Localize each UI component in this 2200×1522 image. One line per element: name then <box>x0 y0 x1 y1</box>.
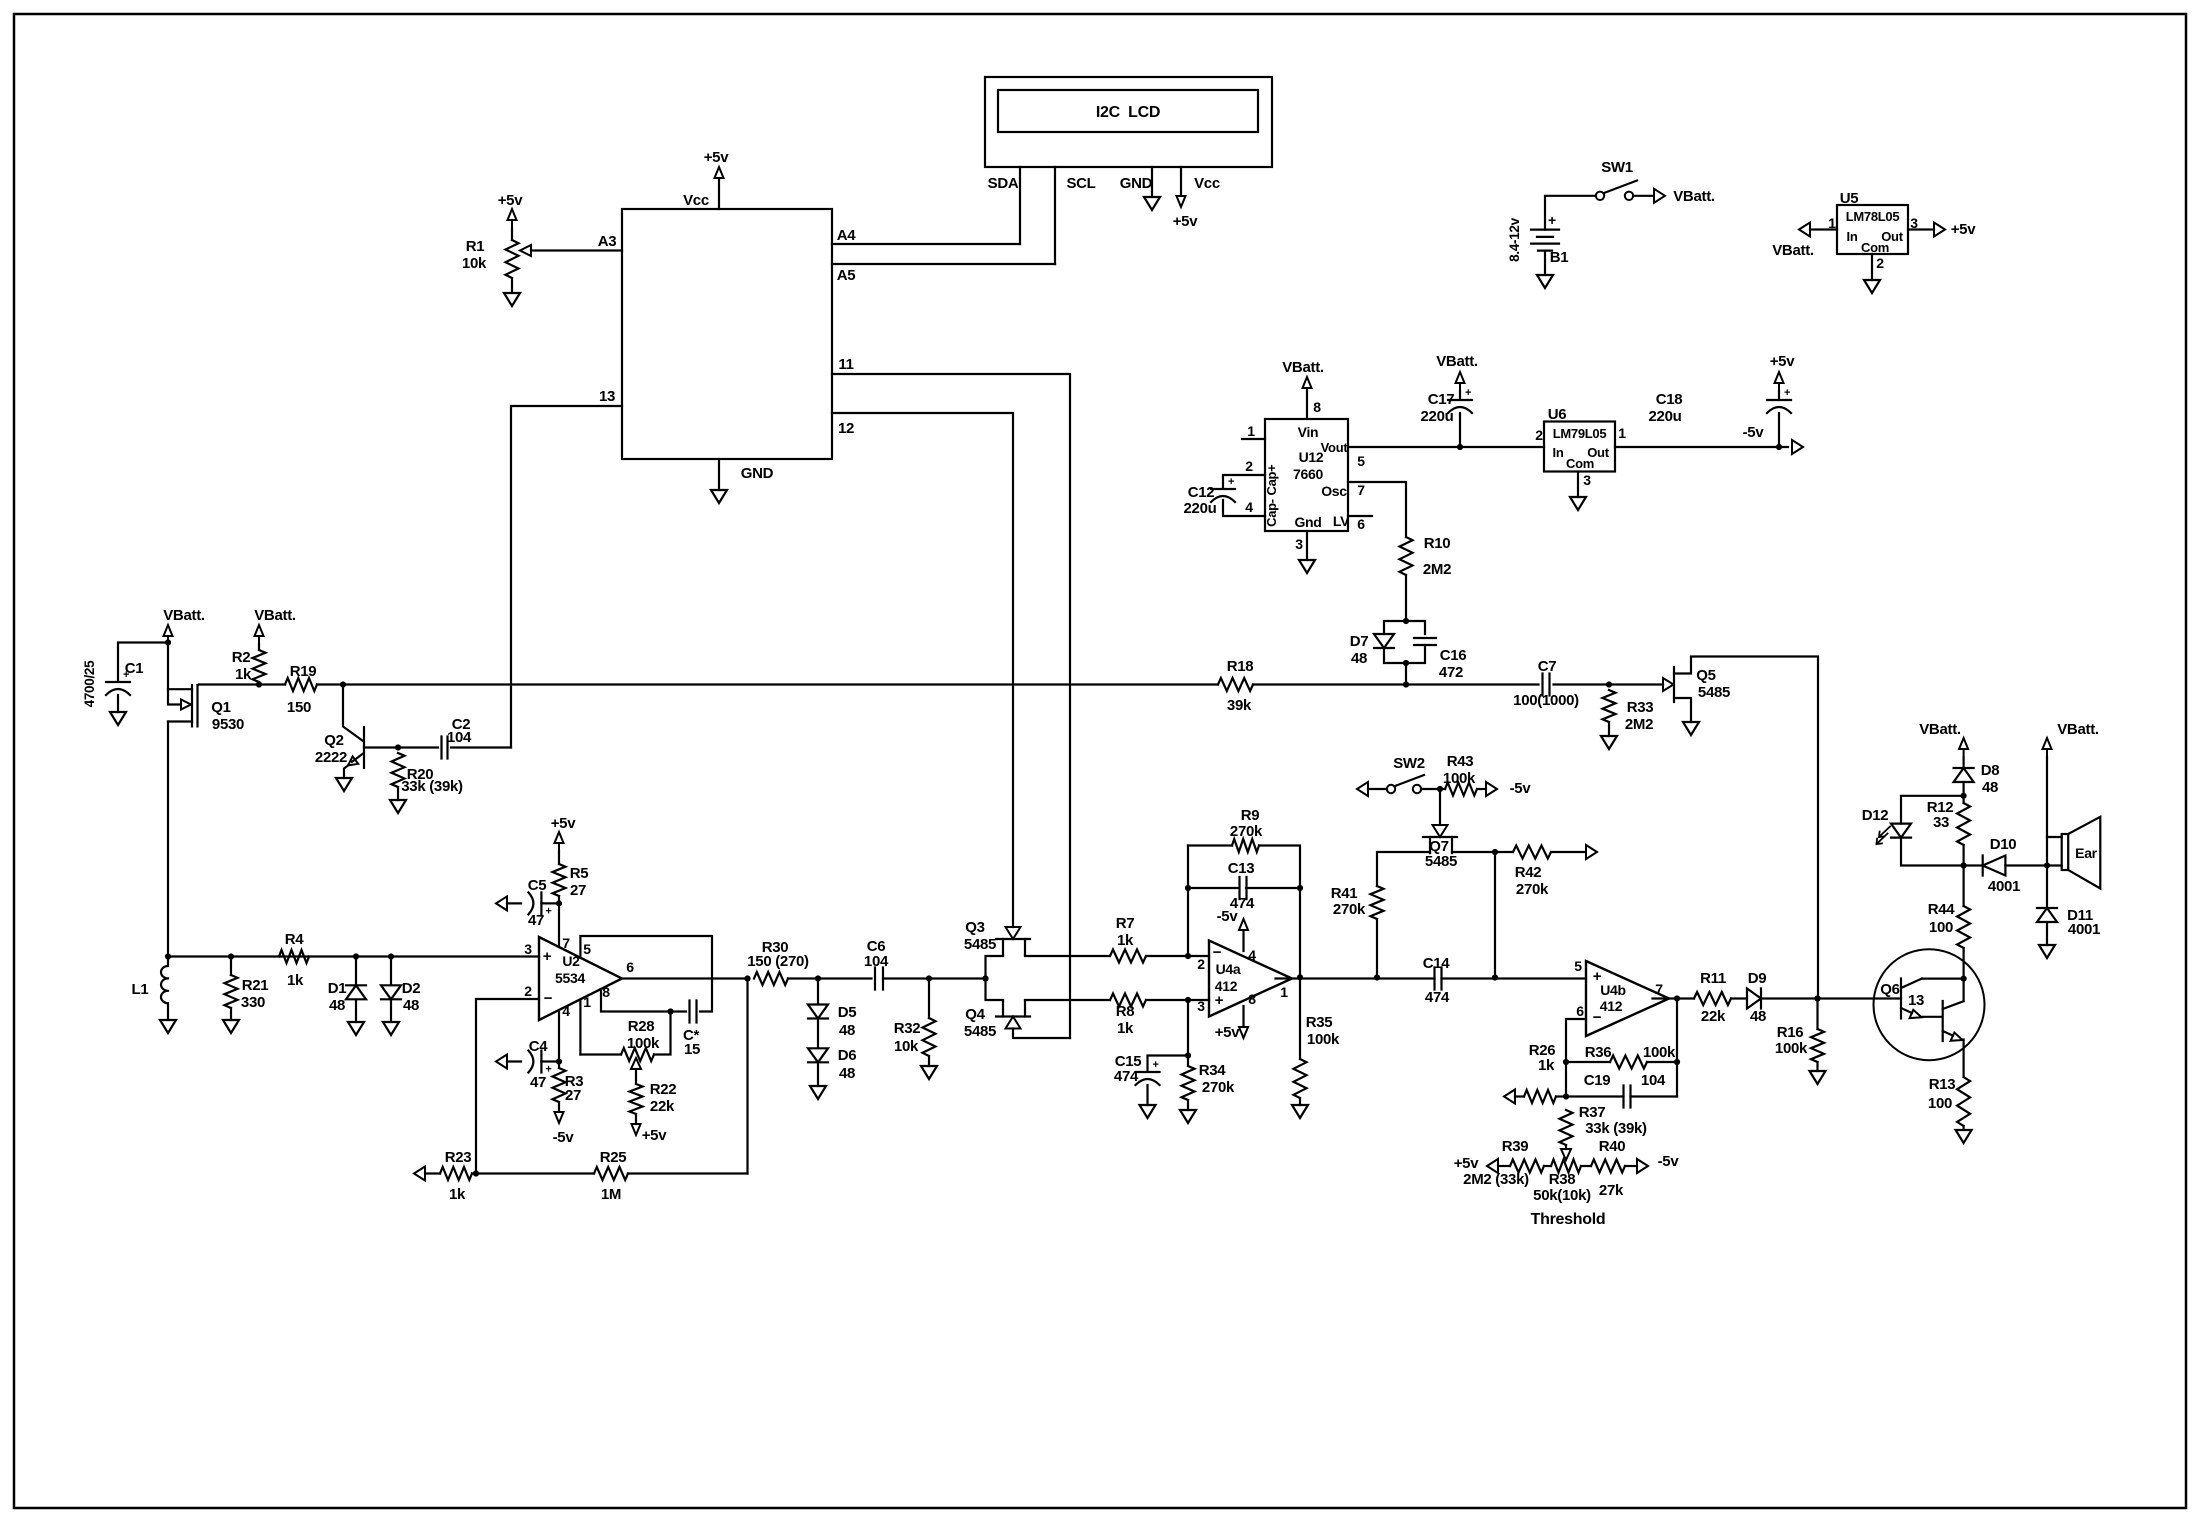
wire R21 bottom <box>230 957 232 1021</box>
svg-text:4700/25: 4700/25 <box>82 660 97 707</box>
svg-text:Com: Com <box>1566 456 1594 471</box>
wire speaker top tap <box>2047 836 2062 838</box>
svg-text:+: + <box>543 948 552 965</box>
svg-text:D7: D7 <box>1350 633 1369 650</box>
wire R39 to R38 <box>1544 1165 1551 1167</box>
diode D1 48 <box>346 985 366 999</box>
wire Q2 base line <box>364 746 511 748</box>
junction <box>1185 885 1191 891</box>
svg-text:L1: L1 <box>132 981 149 998</box>
junction <box>556 1058 562 1064</box>
potentiometer R38 50k <box>1551 1160 1581 1173</box>
svg-text:5: 5 <box>1357 453 1365 469</box>
svg-text:GND: GND <box>741 465 774 482</box>
wire SW2 to R43 <box>1421 788 1445 790</box>
wire U12 pin2 to C12 <box>1223 475 1265 487</box>
power +5v C18 <box>1775 372 1784 391</box>
capacitor C19 104 <box>1624 1086 1631 1108</box>
resistor R26 1k <box>1524 1090 1556 1103</box>
svg-text:2: 2 <box>1535 427 1543 443</box>
wire C1 tap <box>118 643 168 682</box>
svg-text:A5: A5 <box>837 267 856 284</box>
switch SW2 <box>1357 782 1368 796</box>
wire D11 bottom <box>2046 922 2048 945</box>
svg-text:Cap+: Cap+ <box>1264 464 1279 496</box>
resistor R44 100 <box>1957 906 1970 948</box>
svg-text:2M2: 2M2 <box>1625 716 1653 733</box>
svg-text:Com: Com <box>1861 240 1889 255</box>
wire U4b out <box>1653 997 1695 999</box>
svg-text:5485: 5485 <box>1698 684 1730 701</box>
resistor R2 1k <box>253 650 266 682</box>
svg-text:R13: R13 <box>1929 1076 1956 1093</box>
svg-text:R2: R2 <box>232 649 251 666</box>
battery B1 <box>1531 230 1559 251</box>
wire pin 11 to Q4 gate <box>832 374 1070 1038</box>
svg-text:39k: 39k <box>1227 697 1252 714</box>
svg-text:6: 6 <box>626 959 634 975</box>
junction <box>228 953 234 959</box>
junction <box>744 975 750 981</box>
speaker Ear <box>2062 834 2069 870</box>
svg-text:R25: R25 <box>600 1149 627 1166</box>
wire D10 left <box>1964 864 1983 866</box>
svg-text:Q3: Q3 <box>965 919 984 936</box>
diode D10 4001 <box>1983 856 2006 876</box>
svg-text:In: In <box>1553 445 1564 460</box>
wire pin3 down <box>1187 1000 1189 1066</box>
svg-text:7: 7 <box>1655 981 1663 997</box>
svg-text:R41: R41 <box>1331 885 1358 902</box>
svg-text:3: 3 <box>524 941 532 957</box>
resistor R3 27 <box>553 1068 566 1102</box>
svg-text:2: 2 <box>1197 956 1205 972</box>
svg-text:6: 6 <box>1576 1003 1584 1019</box>
svg-text:C17: C17 <box>1428 391 1455 408</box>
junction <box>1563 1059 1569 1065</box>
wire D10 right <box>2005 864 2061 866</box>
svg-text:+5v: +5v <box>1770 353 1796 370</box>
svg-text:1: 1 <box>1280 984 1288 1000</box>
wire C19 line <box>1566 1095 1677 1097</box>
op-amp U4b 412 <box>1586 961 1669 1036</box>
wire U4a out <box>1276 977 1435 979</box>
svg-text:2: 2 <box>524 983 532 999</box>
ground MCU <box>711 490 727 503</box>
wire MCU GND <box>718 459 720 490</box>
junction <box>1563 1093 1569 1099</box>
wire R11 to D9 <box>1731 997 1747 999</box>
svg-text:R19: R19 <box>290 663 317 680</box>
resistor R42 270k <box>1513 846 1551 859</box>
ground Q5 <box>1683 722 1699 735</box>
svg-text:+: + <box>1784 387 1790 399</box>
wire D7C16 top rails <box>1384 621 1425 634</box>
wire U12 pin8 Vin <box>1306 389 1308 419</box>
resistor R25 1M <box>594 1167 628 1180</box>
svg-text:SW2: SW2 <box>1393 755 1425 772</box>
wire R8 to U4a pin3 <box>1146 999 1209 1001</box>
svg-text:10k: 10k <box>894 1038 919 1055</box>
svg-text:9530: 9530 <box>212 716 244 733</box>
svg-text:R35: R35 <box>1306 1014 1333 1031</box>
wire U5 Out <box>1908 228 1934 230</box>
svg-text:+5v: +5v <box>704 149 730 166</box>
svg-text:U5: U5 <box>1840 190 1859 207</box>
wire Q5 drain <box>1674 657 1818 999</box>
wire R30 to C6 <box>788 977 872 979</box>
junction <box>815 975 821 981</box>
microcontroller U1 <box>622 209 832 459</box>
svg-text:48: 48 <box>1982 779 1998 796</box>
junction <box>982 975 988 981</box>
svg-text:104: 104 <box>447 729 472 746</box>
svg-text:U4a: U4a <box>1216 961 1241 977</box>
wire D5 to D6 <box>817 1019 819 1049</box>
wire C17 top <box>1459 391 1461 399</box>
svg-text:Vcc: Vcc <box>1194 175 1220 192</box>
wire U2 -in <box>476 999 539 1174</box>
svg-text:4: 4 <box>1245 499 1253 515</box>
junction <box>1374 974 1380 980</box>
svg-text:8.4-12v: 8.4-12v <box>1507 217 1522 261</box>
capacitor C2 104 <box>442 737 448 759</box>
svg-text:R37: R37 <box>1579 1104 1606 1121</box>
wire R3 bottom <box>558 1102 560 1111</box>
svg-text:474: 474 <box>1114 1068 1139 1085</box>
net at R42 <box>1551 851 1584 853</box>
wire D2 top <box>390 957 392 986</box>
wire U4b -in <box>1566 1019 1586 1097</box>
junction <box>1297 974 1303 980</box>
svg-text:C19: C19 <box>1584 1072 1611 1089</box>
svg-text:R39: R39 <box>1502 1138 1529 1155</box>
svg-text:13: 13 <box>599 388 615 405</box>
svg-text:8: 8 <box>602 984 610 1000</box>
wire R43 to -5v <box>1477 788 1486 790</box>
svg-text:12: 12 <box>838 420 854 437</box>
svg-text:VBatt.: VBatt. <box>254 607 296 624</box>
svg-text:Q5: Q5 <box>1696 667 1715 684</box>
wire R2 top <box>258 644 260 650</box>
svg-text:R40: R40 <box>1599 1138 1626 1155</box>
capacitor C14 474 <box>1435 968 1442 990</box>
diode D8 48 <box>1954 768 1974 782</box>
svg-text:100k: 100k <box>627 1035 660 1052</box>
wire VBatt to Q1 <box>167 643 169 690</box>
transistor Q6 13 <box>1874 949 1985 1060</box>
wire R9 leads <box>1188 846 1300 978</box>
ground C15 <box>1140 1105 1156 1118</box>
wire C18 bottom <box>1778 413 1780 447</box>
svg-text:33: 33 <box>1933 814 1949 831</box>
resistor R21 330 <box>225 975 238 1008</box>
junction <box>1403 660 1409 666</box>
net at C5 <box>496 896 507 910</box>
svg-text:10k: 10k <box>462 255 487 272</box>
svg-text:R4: R4 <box>285 931 305 948</box>
wire R28 right leg <box>654 1012 671 1055</box>
op-amp U2 5534 <box>539 937 622 1020</box>
svg-text:R22: R22 <box>650 1081 677 1098</box>
transistor Q4 5485 <box>996 1015 1030 1017</box>
svg-text:C13: C13 <box>1228 860 1255 877</box>
svg-text:Q6: Q6 <box>1880 981 1899 998</box>
svg-text:13: 13 <box>1908 992 1924 1009</box>
resistor R23 1k <box>440 1167 472 1180</box>
power VBatt speaker <box>2043 738 2052 757</box>
regulator U5 LM78L05 <box>1837 205 1908 254</box>
wire pin8 to Cstar <box>601 990 686 1012</box>
svg-text:270k: 270k <box>1230 823 1263 840</box>
svg-text:150: 150 <box>287 699 311 716</box>
junction <box>353 953 359 959</box>
LED D12 <box>1891 824 1911 838</box>
wire R32 top-bottom <box>928 979 930 1067</box>
wire U2 out <box>622 977 748 979</box>
svg-text:+: + <box>1548 212 1556 228</box>
svg-text:VBatt.: VBatt. <box>1673 188 1715 205</box>
svg-text:C14: C14 <box>1423 955 1451 972</box>
junction <box>1776 444 1782 450</box>
ground R21 <box>223 1020 239 1033</box>
net -5v output <box>1792 440 1803 454</box>
svg-text:D2: D2 <box>402 980 421 997</box>
svg-text:27k: 27k <box>1599 1182 1624 1199</box>
svg-text:D9: D9 <box>1748 970 1767 987</box>
svg-text:A3: A3 <box>598 233 617 250</box>
svg-text:Q1: Q1 <box>211 699 230 716</box>
wire D1 top <box>355 957 357 986</box>
svg-text:1: 1 <box>583 994 591 1010</box>
wire Q7 drain junction to R42 <box>1495 851 1513 853</box>
power VBatt C1 <box>164 625 173 644</box>
svg-text:1k: 1k <box>235 666 252 683</box>
svg-text:Vin: Vin <box>1298 424 1319 440</box>
svg-text:LM79L05: LM79L05 <box>1553 426 1607 441</box>
resistor R30 150 (270) <box>754 972 788 985</box>
net VBatt at SW1 <box>1654 189 1665 203</box>
svg-text:3: 3 <box>1583 472 1591 488</box>
wire D12 branch <box>1901 796 1964 824</box>
svg-text:48: 48 <box>403 997 419 1014</box>
svg-text:R34: R34 <box>1199 1062 1227 1079</box>
svg-text:22k: 22k <box>1701 1008 1726 1025</box>
junction <box>1961 976 1967 982</box>
wiper arrow R37 <box>1561 1149 1571 1160</box>
net +5v at U5 <box>1934 223 1945 237</box>
svg-text:100k: 100k <box>1307 1031 1340 1048</box>
power VBatt U12 <box>1303 377 1312 396</box>
wire R1 top <box>511 228 513 240</box>
svg-text:R11: R11 <box>1700 970 1726 987</box>
svg-text:412: 412 <box>1600 998 1623 1014</box>
svg-text:8: 8 <box>1248 991 1256 1007</box>
capacitor C6 104 <box>875 968 883 990</box>
wire R33 to ground <box>1608 722 1610 736</box>
wire C5 to junction <box>541 902 559 904</box>
wire D7C16 bottom <box>1384 645 1425 685</box>
svg-text:47: 47 <box>530 1074 546 1091</box>
wire Q1 gate <box>198 683 200 686</box>
svg-text:R23: R23 <box>445 1149 472 1166</box>
wire C18 top <box>1778 391 1780 399</box>
wire D1 bottom <box>355 1000 357 1023</box>
svg-text:2: 2 <box>1245 458 1253 474</box>
svg-text:VBatt.: VBatt. <box>2057 721 2099 738</box>
junction <box>1437 786 1443 792</box>
wire C4 to junction <box>541 1060 559 1062</box>
diode D9 48 <box>1747 989 1761 1009</box>
wire R10 to D7C16 <box>1405 575 1407 621</box>
svg-text:D8: D8 <box>1981 762 2000 779</box>
wire R44 leads <box>1962 866 1964 952</box>
wire node to Q6 base <box>1818 997 1902 999</box>
svg-text:SDA: SDA <box>988 175 1019 192</box>
wire fb left vertical <box>1187 846 1189 957</box>
inductor L1 <box>161 957 168 1021</box>
svg-text:Osc: Osc <box>1321 483 1347 499</box>
wire R5 to pin7 <box>558 896 560 947</box>
junction <box>1185 997 1191 1003</box>
svg-text:100: 100 <box>1929 919 1953 936</box>
svg-text:-5v: -5v <box>553 1129 575 1146</box>
junction <box>2044 862 2050 868</box>
junction <box>256 681 262 687</box>
wire U12 pin1 stub <box>1242 438 1265 440</box>
ground R33 <box>1601 736 1617 749</box>
ground B1 <box>1537 275 1553 288</box>
svg-text:R16: R16 <box>1777 1024 1804 1041</box>
resistor R8 1k <box>1110 994 1146 1007</box>
ground L1 <box>160 1020 176 1033</box>
wire U12 pin4 to C12 <box>1223 500 1265 516</box>
ground R34 <box>1180 1110 1196 1123</box>
wire Q5 source <box>1674 698 1691 722</box>
wire D12 bottom <box>1901 838 1964 866</box>
wire pin 12 to Q3 gate <box>832 413 1013 927</box>
svg-text:R28: R28 <box>628 1018 655 1035</box>
resistor R43 100k <box>1445 783 1477 796</box>
svg-text:1k: 1k <box>1538 1057 1555 1074</box>
svg-text:Gnd: Gnd <box>1294 514 1321 530</box>
wire SW2 to Q7 gate <box>1439 789 1441 825</box>
junction <box>1492 974 1498 980</box>
transistor Q5 5485 <box>1662 683 1664 685</box>
wire Q7 drain to R42 <box>1452 852 1495 978</box>
junction <box>1492 849 1498 855</box>
svg-text:I2C LCD: I2C LCD <box>1096 104 1160 121</box>
svg-text:412: 412 <box>1215 978 1238 994</box>
wire R34 bottom <box>1187 1100 1189 1110</box>
wire U6 out line <box>1615 446 1788 448</box>
svg-text:5485: 5485 <box>1425 853 1457 870</box>
resistor R22 22k <box>630 1084 643 1114</box>
wire U12 Osc to R10 <box>1348 482 1406 537</box>
svg-text:R44: R44 <box>1928 901 1956 918</box>
wire fb vertical <box>746 979 748 1174</box>
svg-text:R9: R9 <box>1241 807 1260 824</box>
junction <box>1185 1052 1191 1058</box>
wire D8 top <box>1962 757 1964 768</box>
wire R35 leads <box>1299 977 1301 1105</box>
wire U6 Com <box>1577 472 1579 498</box>
svg-text:VBatt.: VBatt. <box>1919 721 1961 738</box>
svg-text:474: 474 <box>1230 895 1255 912</box>
svg-text:+5v: +5v <box>1173 213 1199 230</box>
wire U12 LV stub <box>1348 515 1372 517</box>
wire gate rail <box>199 683 1663 685</box>
junction <box>1457 444 1463 450</box>
resistor R12 33 <box>1957 803 1970 845</box>
ground R13 <box>1956 1130 1972 1143</box>
svg-text:5485: 5485 <box>964 936 996 953</box>
svg-text:LM78L05: LM78L05 <box>1846 209 1900 224</box>
ground LCD <box>1144 197 1160 210</box>
svg-text:+5v: +5v <box>551 815 577 832</box>
junction <box>340 681 346 687</box>
svg-text:100k: 100k <box>1643 1044 1676 1061</box>
svg-text:D5: D5 <box>838 1004 857 1021</box>
svg-text:+: + <box>545 1064 551 1076</box>
junction <box>1297 885 1303 891</box>
junction <box>1606 681 1612 687</box>
svg-text:C1: C1 <box>125 660 144 677</box>
ground D2 <box>383 1022 399 1035</box>
wire C17 bottom <box>1459 413 1461 447</box>
wire pin4 to C4 <box>558 1010 560 1068</box>
svg-text:−: − <box>544 990 553 1007</box>
wire R37 to wiper <box>1565 1145 1567 1149</box>
svg-text:2M2: 2M2 <box>1423 561 1451 578</box>
svg-text:D6: D6 <box>838 1047 857 1064</box>
svg-text:15: 15 <box>684 1041 700 1058</box>
capacitor C5 47 <box>528 892 533 914</box>
svg-text:6: 6 <box>1357 516 1365 532</box>
svg-text:-5v: -5v <box>1510 780 1532 797</box>
capacitor C7 100(1000) <box>1543 674 1550 696</box>
svg-text:1k: 1k <box>449 1186 466 1203</box>
op-amp U4a 412 <box>1209 941 1292 1017</box>
diode D6 48 <box>808 1048 828 1062</box>
wire SCL from LCD <box>1054 167 1056 264</box>
svg-text:47: 47 <box>528 912 544 929</box>
transistor Q7 5485 <box>1423 836 1457 838</box>
regulator U6 LM79L05 <box>1544 422 1615 472</box>
transistor Q3 5485 <box>996 938 1030 940</box>
ground Q2 <box>336 778 352 791</box>
junction <box>1403 681 1409 687</box>
svg-text:R8: R8 <box>1116 1003 1135 1020</box>
svg-text:330: 330 <box>241 994 265 1011</box>
wire LCD Vcc pin <box>1180 167 1182 196</box>
svg-text:48: 48 <box>1351 650 1367 667</box>
svg-text:VBatt.: VBatt. <box>1282 359 1324 376</box>
svg-text:D10: D10 <box>1990 836 2017 853</box>
wire R16 leads <box>1816 999 1818 1072</box>
wire R7 to U4a pin2 <box>1146 955 1209 957</box>
svg-text:VBatt.: VBatt. <box>1772 242 1814 259</box>
svg-text:+: + <box>1215 992 1224 1009</box>
svg-text:104: 104 <box>1641 1072 1666 1089</box>
svg-text:R36: R36 <box>1585 1044 1612 1061</box>
svg-text:1k: 1k <box>1117 932 1134 949</box>
power VBatt C17 <box>1456 372 1465 391</box>
wire R28 wiper to R22 <box>635 1069 637 1084</box>
charge pump U12 7660 <box>1265 419 1348 531</box>
resistor R18 39k <box>1218 678 1253 691</box>
wire R13 bottom <box>1962 1126 1964 1130</box>
